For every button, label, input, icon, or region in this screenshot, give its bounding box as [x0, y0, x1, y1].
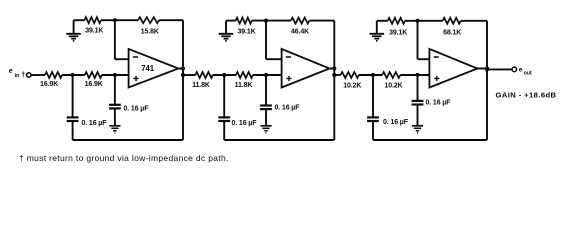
node e_in label [9, 68, 25, 79]
svg-text:68.1K: 68.1K [443, 29, 461, 36]
svg-text:16.9K: 16.9K [85, 81, 103, 88]
wire interstage 2-3 [334, 74, 340, 76]
resistor 10.2K (input b, stage 3) [382, 72, 402, 89]
wire to e_out terminal [487, 68, 512, 70]
node B3 [415, 73, 419, 77]
wire top rail right + feedback column stage3 [461, 21, 487, 140]
node A3 [371, 73, 375, 77]
wire op-amp output stub stage3 [477, 68, 487, 70]
terminal e_out [512, 67, 517, 72]
op-amp U3 [429, 49, 477, 88]
resistor 16.9K (input b, stage 1) [85, 72, 103, 88]
terminal e_in [27, 73, 31, 77]
wire inverting input branch stage2 [266, 21, 282, 60]
svg-text:in: in [15, 73, 20, 79]
svg-text:e: e [9, 68, 13, 75]
node top junction J1 [113, 18, 117, 22]
wire Rb to op-amp + input stage1 [102, 74, 129, 76]
capacitor C3b 0.16 uF (node B3 to ground) [412, 75, 452, 126]
svg-text:11.8K: 11.8K [192, 82, 210, 89]
node output dot upper stage2 [332, 66, 336, 70]
node B2 [264, 73, 268, 77]
op-amp U1 741 [129, 49, 179, 88]
svg-text:39.1K: 39.1K [85, 27, 103, 34]
svg-text:0. 16 µF: 0. 16 µF [275, 105, 301, 112]
node B1 [113, 73, 117, 77]
ground G2a (top) [219, 21, 234, 41]
wire top rail right + feedback column stage1 [159, 20, 183, 140]
ground G2b (below C2b) [260, 125, 271, 127]
node output stage3 [485, 67, 489, 71]
wire bottom feedback stage2 [224, 139, 334, 141]
resistor 39.1K (stage 2) [236, 18, 256, 36]
wire top rail right + feedback column stage2 [309, 21, 334, 140]
svg-text:0. 16 µF: 0. 16 µF [426, 100, 452, 107]
resistor 11.8K (input a, stage 2) [192, 72, 213, 89]
wire top rail left stage1 [74, 19, 85, 21]
wire top rail mid stage2 [252, 20, 291, 22]
capacitor C3a 0.16 uF (node A3 to bottom feedback) [367, 75, 409, 140]
svg-text:10.2K: 10.2K [384, 82, 402, 89]
wire top rail mid stage1 [101, 19, 138, 21]
wire Ra to node A3 [359, 74, 382, 76]
svg-text:† must return to ground via lo: † must return to ground via low-impedanc… [19, 153, 229, 163]
capacitor C1a 0.16 uF (node A1 to bottom feedback) [67, 75, 108, 140]
wire inverting input branch stage1 [115, 20, 129, 59]
svg-text:0. 16 µF: 0. 16 µF [124, 106, 150, 113]
wire Rb to op-amp + input stage2 [253, 74, 282, 76]
svg-text:10.2K: 10.2K [343, 82, 361, 89]
svg-text:†: † [21, 70, 25, 79]
svg-text:16.9K: 16.9K [40, 81, 58, 88]
wire Ra to node A1 [62, 74, 85, 76]
svg-text:15.8K: 15.8K [141, 28, 159, 35]
ground G3a (top) [370, 21, 385, 41]
wire Rb to op-amp + input stage3 [400, 74, 429, 76]
wire interstage 1-2 [183, 74, 195, 76]
node e_out label [519, 67, 532, 77]
wire Ra to node A2 [213, 74, 236, 76]
wire op-amp output stub stage2 [330, 68, 335, 70]
op-amp U2 [282, 49, 330, 88]
resistor 15.8K (feedback, stage 1) [138, 17, 159, 35]
node top junction J2 [264, 19, 268, 23]
svg-text:46.4K: 46.4K [291, 28, 309, 35]
resistor 68.1K (feedback, stage 3) [443, 18, 462, 37]
resistor 39.1K (stage 1) [85, 17, 104, 34]
svg-text:GAIN - +18.6dB: GAIN - +18.6dB [496, 91, 557, 100]
wire inverting input branch stage3 [418, 21, 430, 59]
node output stage1 to next stage [181, 73, 185, 77]
resistor 11.8K (input b, stage 2) [235, 72, 253, 89]
resistor 16.9K (input a, stage 1) [40, 72, 62, 88]
svg-text:39.1K: 39.1K [237, 28, 255, 35]
wire op-amp output stub stage1 [178, 68, 183, 70]
wire bottom feedback stage1 [73, 139, 183, 141]
capacitor C2a 0.16 uF (node A2 to bottom feedback) [218, 75, 257, 140]
capacitor C1b 0.16 uF (node B1 to ground) [109, 75, 149, 126]
capacitor C2b 0.16 uF (node B2 to ground) [260, 75, 300, 126]
node A2 [222, 73, 226, 77]
resistor 10.2K (input a, stage 3) [341, 72, 362, 89]
node output dot upper stage3 [485, 66, 489, 70]
ground G3b (below C3b) [412, 125, 423, 127]
node top junction J3 [415, 19, 419, 23]
ground G1b (below C1b) [109, 125, 120, 127]
resistor 39.1K (stage 3) [388, 18, 408, 37]
svg-text:e: e [519, 67, 523, 74]
wire input to R1 [31, 74, 45, 76]
wire top rail left stage2 [226, 20, 236, 22]
ground G1a (top) [66, 20, 81, 41]
node output dot upper stage1 [181, 66, 185, 70]
node A1 [71, 73, 75, 77]
resistor 46.4K (feedback, stage 2) [291, 18, 309, 36]
svg-text:0. 16 µF: 0. 16 µF [232, 120, 258, 127]
svg-text:0. 16 µF: 0. 16 µF [82, 120, 108, 127]
node output stage2 to next stage [332, 73, 336, 77]
wire top rail mid stage3 [405, 20, 443, 22]
svg-text:39.1K: 39.1K [389, 29, 407, 36]
svg-text:11.8K: 11.8K [235, 82, 253, 89]
svg-text:out: out [524, 70, 532, 76]
svg-text:0. 16 µF: 0. 16 µF [383, 119, 409, 126]
svg-text:741: 741 [141, 64, 154, 73]
wire top rail left stage3 [377, 20, 388, 22]
wire bottom feedback stage3 [373, 139, 487, 141]
